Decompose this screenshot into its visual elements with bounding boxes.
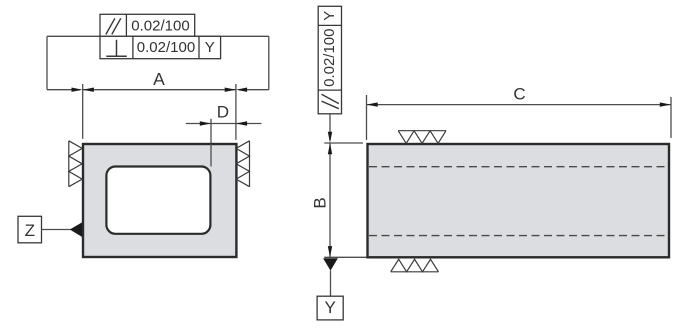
tube outer body (cross-section) (83, 144, 236, 257)
datum Z (18, 216, 82, 243)
node: extension line at top face level (324, 142, 363, 144)
svg-text:Y: Y (325, 298, 336, 317)
dimension A (83, 69, 236, 140)
hidden line: inner bore bottom (369, 235, 668, 237)
wire: leader bracket from feature control frames to side faces (47, 36, 269, 89)
tube side view body (368, 144, 670, 257)
surface texture marks, bottom face (391, 259, 439, 272)
svg-text:A: A (153, 69, 165, 89)
datum Y (317, 258, 343, 320)
node: extension line at bottom face level (324, 256, 368, 258)
dimension D (186, 102, 262, 144)
surface texture marks, right face (236, 141, 249, 187)
svg-text:0.02/100: 0.02/100 (321, 29, 338, 87)
surface texture marks, left face (69, 141, 82, 187)
svg-text:C: C (513, 85, 525, 104)
svg-text:Y: Y (205, 39, 215, 56)
surface texture marks, top face (398, 131, 446, 144)
svg-text:Y: Y (321, 11, 338, 21)
svg-text:B: B (311, 197, 330, 208)
svg-text:Z: Z (25, 221, 35, 240)
feature control frame FCF3 (vertical) parallelism 0.02/100 Y (318, 6, 341, 114)
tube inner bore (rounded rectangle) (106, 167, 210, 234)
svg-text:0.02/100: 0.02/100 (137, 39, 195, 56)
feature control frame FCF2 perpendicularity 0.02/100 Y (100, 36, 221, 58)
dimension B (311, 143, 333, 257)
dimension C (367, 85, 672, 141)
svg-text:D: D (217, 102, 229, 121)
feature control frame FCF1 parallelism 0.02/100 (100, 14, 195, 36)
svg-text:0.02/100: 0.02/100 (131, 18, 189, 35)
hidden line: inner bore top (369, 166, 668, 168)
wire: bracket arrowheads pointing inward (72, 88, 248, 92)
wire: leader from FCF3 down to top face (328, 114, 332, 143)
wire: dimension D extension line crossing tube wall (210, 144, 212, 167)
